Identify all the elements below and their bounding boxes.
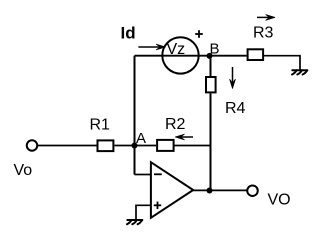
svg-text:Vo: Vo [14,162,33,179]
arrow into R2 (left) [175,134,193,140]
svg-text:R4: R4 [225,100,246,117]
resistor R4 [206,77,216,92]
arrow beside R4 (down) [230,67,236,88]
resistor R3 [248,49,264,60]
ground (top right) [292,70,307,74]
svg-text:Vz: Vz [167,41,186,58]
op-amp U1 [151,162,193,218]
terminal Vo [27,140,38,151]
terminal VO [247,185,258,196]
node A [132,143,138,149]
node output [207,188,213,194]
svg-text:R3: R3 [253,25,274,42]
svg-text:Id: Id [121,24,136,43]
svg-text:R1: R1 [90,117,111,134]
wire (output) [193,189,248,191]
resistor R1 [98,140,114,151]
plus sign (Vz) [195,30,203,38]
wire [135,174,151,176]
wire [210,94,212,191]
wire (plus input to ground) [136,205,150,220]
svg-text:A: A [136,130,146,147]
arrow Id [138,44,165,50]
svg-text:R2: R2 [165,116,186,133]
wire [134,56,136,175]
arrow above R3 [257,15,275,21]
wire [175,145,211,147]
wire [115,145,157,147]
wire (top rail) [135,55,247,57]
op-amp minus input mark [154,173,162,175]
wire [38,145,97,147]
ground (bottom) [127,220,142,224]
wire [210,56,212,76]
resistor R2 [157,140,174,151]
svg-text:VO: VO [268,192,291,209]
op-amp plus input mark [154,202,161,209]
node B [207,53,213,59]
wire [264,56,300,70]
svg-text:B: B [210,41,220,58]
voltage source Vz [162,37,198,73]
